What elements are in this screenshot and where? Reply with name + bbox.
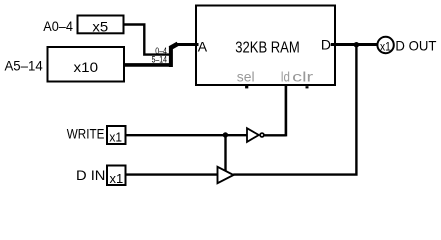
svg-text:WRITE: WRITE (67, 126, 105, 142)
svg-text:D IN: D IN (76, 167, 105, 183)
svg-text:A: A (198, 39, 208, 55)
svg-text:x1: x1 (109, 130, 122, 145)
svg-text:A0–4: A0–4 (43, 18, 73, 34)
svg-text:A5–14: A5–14 (5, 57, 43, 73)
svg-text:x10: x10 (74, 59, 99, 75)
svg-text:x1: x1 (380, 40, 391, 54)
svg-text:x5: x5 (92, 19, 108, 35)
svg-text:ld: ld (281, 69, 290, 85)
svg-text:clr: clr (292, 69, 313, 85)
svg-text:32KB RAM: 32KB RAM (235, 39, 300, 56)
svg-text:x1: x1 (110, 171, 124, 186)
svg-text:5–14: 5–14 (152, 54, 167, 64)
svg-text:D: D (321, 37, 331, 53)
svg-text:D OUT: D OUT (395, 38, 436, 54)
svg-text:sel: sel (237, 69, 255, 85)
